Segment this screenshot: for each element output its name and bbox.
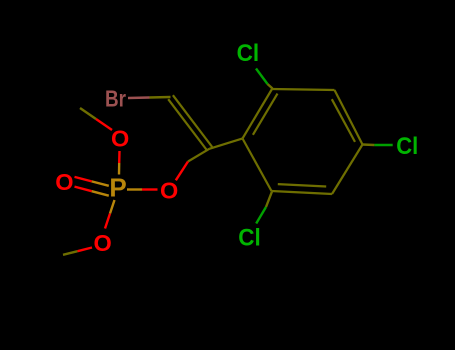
svg-text:Br: Br	[105, 86, 126, 112]
svg-text:P: P	[109, 173, 126, 203]
wire R-Cl right bond (carbon half)	[363, 143, 375, 146]
svg-text:O: O	[111, 126, 129, 152]
wire P=O double bond	[75, 177, 109, 196]
wire Br-C2 bond (carbon half)	[150, 96, 171, 99]
wire O-P bond (phosphorus half)	[127, 188, 142, 190]
svg-text:Cl: Cl	[238, 224, 261, 251]
wire C1-ring bond	[209, 139, 242, 149]
wire TL-Cl top bond (chlorine half)	[256, 69, 268, 85]
ring inner double L-TL	[253, 94, 278, 135]
wire P-O top bond (phosphorus half)	[118, 163, 121, 175]
wire BL-Cl bottom bond (carbon half)	[266, 192, 272, 208]
svg-text:Cl: Cl	[237, 40, 260, 67]
ring edge L-TL	[243, 89, 273, 139]
wire BL-Cl bottom bond (chlorine half)	[256, 207, 266, 224]
svg-text:O: O	[55, 169, 73, 195]
wire C1-O ester bond (oxygen half)	[176, 162, 188, 181]
ring edge BL-L	[243, 139, 272, 192]
wire P-O top bond (oxygen half)	[118, 151, 121, 163]
wire P-O bottom bond (phosphorus half)	[110, 200, 115, 214]
svg-text:O: O	[93, 230, 111, 256]
ring inner double BR-BL	[278, 184, 326, 186]
ring edge TR-R	[335, 90, 363, 145]
svg-text:Cl: Cl	[396, 133, 418, 160]
wire TL-Cl top bond (carbon half)	[268, 84, 273, 89]
wire R-Cl right bond (chlorine half)	[374, 144, 392, 146]
svg-text:O: O	[160, 178, 178, 204]
ring edge BR-BL	[272, 191, 333, 194]
ring edge TL-TR	[272, 89, 335, 90]
wire P-O bottom bond (oxygen half)	[105, 214, 110, 229]
benzene ring	[243, 89, 363, 194]
wire O-CH3 top bond (oxygen half)	[96, 119, 112, 130]
wire O-CH3 bottom bond (carbon half)	[63, 251, 78, 255]
wire C1-O ester bond (carbon half)	[188, 149, 209, 162]
ring edge R-BR	[332, 145, 363, 195]
wire O-CH3 top bond (carbon half)	[80, 108, 96, 119]
wire O-CH3 bottom bond (oxygen half)	[78, 248, 93, 252]
wire O-P bond (oxygen half)	[142, 188, 158, 190]
wire Br-C2 bond (maroon half)	[128, 96, 150, 99]
wire C2=C1 vinyl double bond	[168, 95, 212, 151]
ring inner double TR-R	[332, 99, 355, 142]
